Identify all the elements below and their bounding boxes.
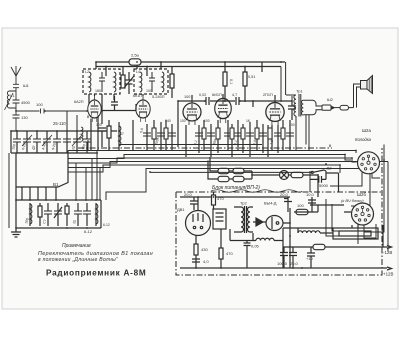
svg-text:470: 470 — [217, 196, 224, 201]
svg-text:100: 100 — [204, 119, 210, 123]
svg-text:0,05: 0,05 — [251, 244, 260, 249]
svg-text:-12В: -12В — [383, 250, 392, 255]
svg-text:6-12: 6-12 — [103, 223, 110, 227]
svg-text:0,02: 0,02 — [199, 93, 206, 97]
svg-text:Ш2б: Ш2б — [357, 192, 366, 197]
svg-text:6А2П: 6А2П — [74, 100, 84, 104]
svg-text:L2: L2 — [85, 70, 89, 74]
svg-text:20,0: 20,0 — [184, 192, 193, 197]
svg-text:4,0: 4,0 — [203, 259, 209, 264]
svg-text:470: 470 — [226, 251, 233, 256]
svg-text:Радиоприемник А-8М: Радиоприемник А-8М — [46, 269, 146, 278]
svg-text:Ш2: Ш2 — [327, 97, 334, 102]
svg-text:ВЫ4-Д: ВЫ4-Д — [264, 201, 277, 206]
svg-text:20,0: 20,0 — [280, 192, 289, 197]
svg-text:L1: L1 — [10, 93, 15, 98]
svg-text:1К: 1К — [246, 119, 250, 123]
svg-text:100: 100 — [184, 95, 190, 99]
svg-text:100: 100 — [146, 89, 152, 93]
svg-text:ДВ1: ДВ1 — [177, 207, 185, 212]
svg-text:6К1П: 6К1П — [133, 94, 142, 98]
svg-text:6-12: 6-12 — [84, 229, 93, 234]
svg-text:L7: L7 — [120, 132, 124, 136]
svg-text:В1: В1 — [53, 182, 59, 187]
svg-text:в положении „Длинные Волны”: в положении „Длинные Волны” — [38, 257, 118, 263]
svg-text:4500: 4500 — [21, 100, 31, 105]
svg-text:5000: 5000 — [319, 183, 329, 188]
svg-text:240: 240 — [165, 119, 171, 123]
svg-text:Ш1: Ш1 — [23, 83, 30, 88]
svg-text:100: 100 — [180, 119, 186, 123]
svg-text:100: 100 — [36, 102, 43, 107]
svg-text:25-110: 25-110 — [53, 121, 66, 126]
svg-text:В2: В2 — [327, 166, 333, 171]
svg-text:2П1П: 2П1П — [263, 93, 273, 97]
svg-text:4,7: 4,7 — [232, 93, 237, 97]
svg-text:100,0: 100,0 — [277, 261, 288, 266]
svg-text:6И1П: 6И1П — [212, 93, 222, 97]
svg-text:Тр1: Тр1 — [296, 89, 303, 94]
svg-text:Тр2: Тр2 — [240, 201, 247, 206]
svg-text:100: 100 — [96, 123, 102, 127]
svg-text:0,1: 0,1 — [229, 79, 233, 84]
svg-text:180: 180 — [95, 89, 101, 93]
svg-text:Примечание: Примечание — [62, 243, 91, 249]
svg-text:130: 130 — [21, 115, 28, 120]
svg-text:Ш2а: Ш2а — [362, 128, 371, 133]
svg-text:+10: +10 — [306, 256, 314, 261]
svg-text:5-240П: 5-240П — [152, 95, 165, 99]
svg-text:100: 100 — [289, 123, 295, 127]
svg-text:L4: L4 — [136, 70, 140, 74]
svg-text:0,51: 0,51 — [248, 75, 255, 79]
svg-text:2,5а: 2,5а — [131, 53, 140, 58]
svg-text:10,0: 10,0 — [306, 192, 315, 197]
svg-text:Блок питания(ВП-2): Блок питания(ВП-2) — [212, 185, 260, 191]
svg-text:Колодка: Колодка — [355, 137, 372, 142]
svg-text:100: 100 — [297, 203, 304, 208]
svg-text:(к ВЧ блоку): (к ВЧ блоку) — [341, 198, 364, 203]
svg-text:+12В: +12В — [383, 272, 393, 277]
svg-text:430: 430 — [201, 247, 208, 252]
svg-text:20,0: 20,0 — [290, 261, 299, 266]
